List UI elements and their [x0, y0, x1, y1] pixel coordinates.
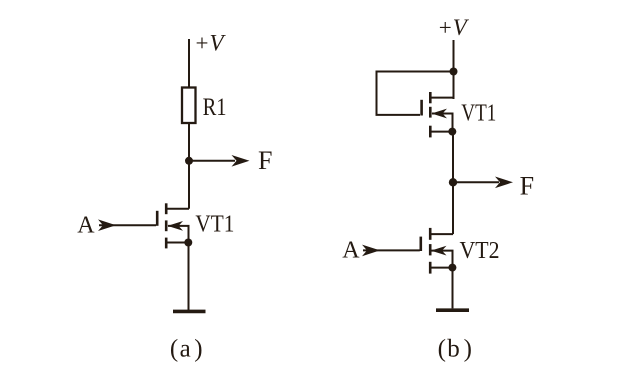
VT1b source junction dot	[448, 128, 456, 136]
VT1b middle segment	[429, 107, 432, 118]
VT1b gate bar	[420, 100, 423, 116]
VT2 middle segment	[429, 244, 432, 255]
svg-text:(: (	[170, 336, 178, 363]
top node junction dot (b)	[450, 68, 458, 76]
svg-text:a: a	[180, 336, 191, 363]
svg-text:A: A	[77, 213, 95, 239]
VT1b drain lead	[431, 97, 454, 99]
VT1a source lead	[167, 242, 189, 244]
VT2 bulk lead	[432, 251, 453, 268]
transistor VT1 (b)	[422, 92, 431, 137]
svg-text:(: (	[438, 336, 446, 363]
wire gate input A (a)	[99, 224, 156, 226]
VT1a source junction dot	[184, 239, 192, 247]
wire resistor bottom to node F and drain	[188, 123, 190, 209]
wire VT2 source to ground (b)	[452, 268, 454, 309]
svg-text:+V: +V	[196, 30, 227, 55]
wire +V down to top node (b)	[453, 40, 455, 99]
VT1a bulk lead	[168, 226, 189, 243]
resistor R1	[182, 88, 196, 124]
wire VT1b source to node F (b)	[452, 132, 454, 235]
svg-text:VT1: VT1	[195, 212, 234, 238]
wire +V to resistor R1 top	[188, 39, 190, 88]
VT1b bulk lead	[432, 114, 453, 132]
VT2 bulk arrowhead	[431, 246, 447, 256]
wire output arrow to F (a)	[189, 160, 235, 162]
wire output arrow to F (b)	[453, 181, 499, 183]
input arrowhead A (b)	[362, 245, 380, 257]
node F (b) junction dot	[449, 178, 457, 186]
label (b)	[438, 336, 472, 363]
svg-text:F: F	[258, 146, 272, 175]
svg-text:A: A	[342, 238, 360, 264]
VT1a gate bar	[156, 211, 159, 226]
ground (b)	[436, 308, 469, 312]
VT1b bulk arrowhead	[432, 109, 448, 119]
VT2 gate bar	[419, 237, 422, 251]
feedback wire gate of VT1 (b)	[377, 72, 454, 115]
VT1a source segment	[165, 238, 168, 249]
VT1a drain lead	[167, 208, 189, 210]
input arrowhead A (a)	[98, 219, 116, 231]
transistor VT2 (b)	[421, 228, 430, 274]
VT1b source lead	[431, 131, 453, 133]
VT2 drain lead	[431, 233, 453, 235]
svg-text:b: b	[447, 336, 460, 363]
VT1a bulk arrowhead	[168, 221, 184, 231]
svg-text:): )	[464, 336, 472, 363]
VT2 source junction dot	[448, 264, 456, 272]
arrowhead F (b)	[495, 177, 513, 189]
VT1a drain segment	[165, 203, 168, 214]
arrowhead F (a)	[232, 155, 250, 167]
VT2 drain segment	[429, 228, 432, 240]
svg-text:VT2: VT2	[460, 238, 500, 264]
label (a)	[170, 336, 203, 363]
svg-text:): )	[194, 336, 202, 363]
svg-text:R1: R1	[203, 94, 227, 121]
wire source to ground (a)	[188, 243, 190, 311]
svg-text:F: F	[520, 172, 534, 201]
VT1b source segment	[429, 126, 432, 138]
svg-text:VT1: VT1	[461, 100, 496, 126]
VT2 source segment	[429, 262, 432, 274]
node F (a) junction dot	[185, 157, 193, 165]
VT2 source lead	[431, 267, 453, 269]
svg-text:+V: +V	[439, 15, 470, 40]
wire gate input A (b)	[363, 249, 420, 251]
VT1a middle (substrate) segment	[165, 220, 168, 231]
VT1b drain segment	[429, 92, 432, 103]
transistor VT1 (a)	[157, 203, 166, 248]
ground (a)	[173, 310, 206, 314]
